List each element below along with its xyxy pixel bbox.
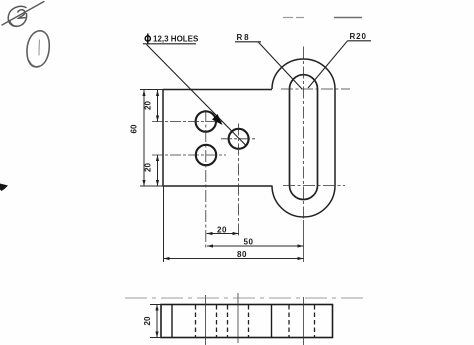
hole H1 [196,111,216,131]
boss left tangent line [271,305,273,338]
hole2 horizontal centerline [221,138,257,140]
leader to holes [147,45,247,146]
hole H3 [196,145,216,165]
plate outline [163,59,335,217]
svg-text:20: 20 [144,101,153,110]
bottom arc horizontal centerline [283,185,345,187]
capsule centerline extension to dims [303,220,305,262]
svg-text:20: 20 [143,316,152,325]
hole3 horizontal centerline [152,154,226,156]
svg-text:R20: R20 [350,32,367,41]
dim line 50 [207,245,304,247]
svg-text:60: 60 [130,124,139,133]
hole H2 [229,129,249,149]
top arc horizontal centerline [281,88,350,90]
arrows 80 [164,257,170,260]
extension line bottom edge [140,185,164,187]
svg-text:R8: R8 [237,33,251,42]
label R8 [235,33,302,89]
handwritten oval [27,31,49,67]
dim line 20 bottom [207,233,239,235]
arrows 20 bottom [156,155,159,161]
centerlines [152,47,350,263]
dim line 80 [164,258,304,260]
inner slot R8 [290,75,318,200]
svg-text:20: 20 [144,163,153,172]
holes 1-3 vertical centerline [205,110,207,250]
capsule outer boss R20 [272,59,335,217]
svg-text:80: 80 [237,250,247,259]
hole1 horizontal centerline [152,121,222,123]
arrows 20 top [156,90,159,96]
inner solid line [171,305,173,338]
bottom view centerlines [125,293,368,345]
hole2 vertical centerline [238,124,240,238]
hidden lines holes [196,305,315,337]
capsule vertical centerline [303,47,305,221]
extension line left edge down [163,186,165,262]
faint top dashes [283,17,362,19]
arrows 20 [207,232,213,235]
svg-text:20: 20 [217,226,227,235]
label R20 [308,32,371,88]
svg-text:12,3 HOLES: 12,3 HOLES [153,35,199,44]
handwritten circled 2 [2,2,44,27]
dim line 20 top [157,90,159,122]
leader arrowhead at hole 1 [212,114,223,125]
bottom view dim 20 [150,305,162,338]
label phi 12,3 HOLES [143,34,246,146]
svg-text:50: 50 [243,238,253,247]
ink blob left edge [0,184,8,192]
arrows 60 [142,90,145,96]
dim line 20 bottom [157,155,159,186]
dim line 60 [143,90,145,186]
arrows 50 [207,244,213,247]
extension line top edge [140,89,164,91]
bottom view outline [161,305,333,338]
